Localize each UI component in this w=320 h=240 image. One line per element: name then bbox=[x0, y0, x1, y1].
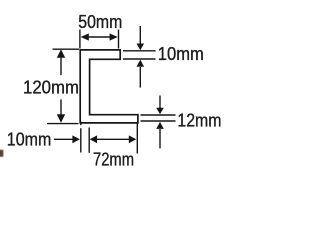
svg-text:72mm: 72mm bbox=[93, 149, 134, 169]
svg-text:10mm: 10mm bbox=[7, 129, 52, 149]
svg-text:12mm: 12mm bbox=[177, 110, 221, 130]
svg-text:50mm: 50mm bbox=[78, 12, 122, 32]
svg-text:120mm: 120mm bbox=[23, 78, 79, 98]
svg-text:10mm: 10mm bbox=[158, 44, 204, 64]
